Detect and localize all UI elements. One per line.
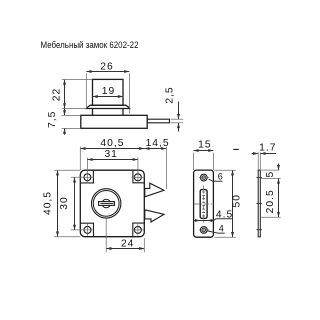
dim 2,5 [178, 102, 180, 120]
svg-text:7,5: 7,5 [47, 111, 58, 128]
plate side tick middle [256, 202, 262, 204]
label 4 leader [207, 231, 225, 233]
svg-text:19: 19 [102, 86, 115, 97]
boss top-right [133, 170, 144, 183]
plate side tick bottom [256, 229, 262, 231]
dim 2,5 ext bottom [171, 122, 184, 124]
dim 24 ext right [143, 238, 145, 252]
top view: flange [87, 105, 130, 108]
dim 40,5 horizontal [80, 148, 144, 150]
latch hook upper [145, 183, 164, 197]
dim 31 ext right [137, 158, 139, 173]
dim 40,5 vert ext bottom [54, 236, 80, 238]
dim 5 [278, 164, 280, 171]
slot centerline horizontal [194, 203, 213, 205]
screw hole top-left [84, 174, 91, 181]
svg-text:4: 4 [219, 224, 224, 234]
dim 40,5 vert ext top [54, 169, 80, 171]
plate side right edge [259, 170, 261, 237]
cylinder face inner circle [93, 191, 119, 217]
svg-text:1.7: 1.7 [259, 142, 276, 153]
plate side left edge [257, 170, 259, 237]
dim 2,5 ext top [171, 118, 184, 120]
slot centerline vertical [203, 186, 205, 223]
top view: base body [81, 115, 147, 128]
strike plate [194, 170, 214, 237]
dim 19 [93, 96, 124, 98]
slot hatch [202, 192, 205, 216]
top view: neck left wire [92, 109, 94, 116]
plate hole top outer [200, 174, 207, 181]
svg-text:2,5: 2,5 [164, 86, 175, 103]
plate side bottom edge [258, 236, 261, 238]
dim 22 ext top [62, 79, 92, 81]
svg-text:5: 5 [265, 171, 276, 178]
boss bottom-right [133, 223, 145, 237]
dim 1.7 [252, 153, 259, 155]
key core circle [102, 199, 111, 208]
plate hole bottom inner [202, 228, 206, 232]
dim 26 [86, 71, 129, 73]
dim 20.5 [277, 212, 280, 217]
dim 7,5 ext bottom [62, 127, 81, 129]
svg-text:30: 30 [59, 196, 70, 209]
dim 22 ext bottom [62, 108, 87, 110]
dim 26 ext right [129, 73, 131, 113]
key bar [99, 202, 115, 206]
svg-text:20.5: 20.5 [265, 189, 276, 213]
plate hole top inner [202, 176, 206, 180]
label 6 leader [209, 179, 223, 181]
plate side tick top [256, 177, 262, 179]
dim 1.7 ext right [259, 152, 261, 170]
dim 40,5 vertical [57, 170, 59, 237]
svg-text:14,5: 14,5 [146, 138, 170, 149]
top view: cylinder body [93, 79, 124, 105]
dim 7,5 ext top [62, 114, 81, 116]
svg-text:15: 15 [198, 139, 211, 150]
svg-text:40,5: 40,5 [42, 191, 53, 215]
front view: lock body [80, 170, 144, 237]
top view: latch bar [147, 119, 169, 123]
plate side top edge [258, 169, 261, 171]
key slit [101, 203, 114, 205]
top view: neck right wire [122, 109, 124, 116]
dim 14,5 [144, 148, 166, 150]
dim 4.5 slot width [194, 220, 214, 222]
svg-text:50: 50 [231, 194, 242, 207]
svg-text:6: 6 [218, 172, 223, 182]
boss bottom-left [80, 223, 93, 237]
cylinder face outer circle [92, 189, 121, 218]
svg-text:40,5: 40,5 [100, 138, 124, 149]
dim 40,5 ext left [79, 147, 81, 170]
svg-text:Мебельный замок 6202-22: Мебельный замок 6202-22 [41, 40, 139, 50]
latch hook lower [145, 210, 164, 222]
screw hole top-right [134, 174, 141, 181]
dim 31 [87, 159, 137, 161]
dim 15 ext right [212, 153, 214, 170]
dim 20.5 ext bottom [261, 216, 280, 218]
dim 22 [64, 80, 66, 109]
dim 50 [232, 170, 234, 237]
svg-text:24: 24 [121, 238, 134, 249]
svg-text:22: 22 [52, 88, 63, 101]
plate hole bottom outer [200, 227, 207, 234]
svg-text:26: 26 [100, 61, 113, 72]
dim 50 ext top [215, 169, 236, 171]
dim 50 ext bottom [215, 236, 236, 238]
dim 26 ext left [85, 73, 87, 107]
dim 5 ext top [261, 169, 279, 171]
screw hole bottom-right [134, 226, 141, 233]
dim 24 ext left / circle centerline [105, 218, 107, 252]
dim 31 ext left [86, 158, 88, 173]
svg-text:4.5: 4.5 [216, 209, 233, 220]
dim 14,5 ext right [165, 147, 167, 189]
screw hole bottom-left [84, 226, 91, 233]
dim 7,5 [64, 109, 66, 116]
dim 15 ext left [192, 153, 194, 170]
separator dash [233, 148, 239, 150]
boss top-left [80, 170, 93, 183]
plate slot [200, 190, 207, 219]
svg-text:31: 31 [104, 149, 117, 160]
dim 5 ext bottom [261, 177, 280, 179]
dim 24 [106, 248, 144, 250]
dim 1.7 ext left [257, 152, 259, 170]
dim 30 [74, 177, 76, 230]
dim 15 [193, 150, 213, 152]
